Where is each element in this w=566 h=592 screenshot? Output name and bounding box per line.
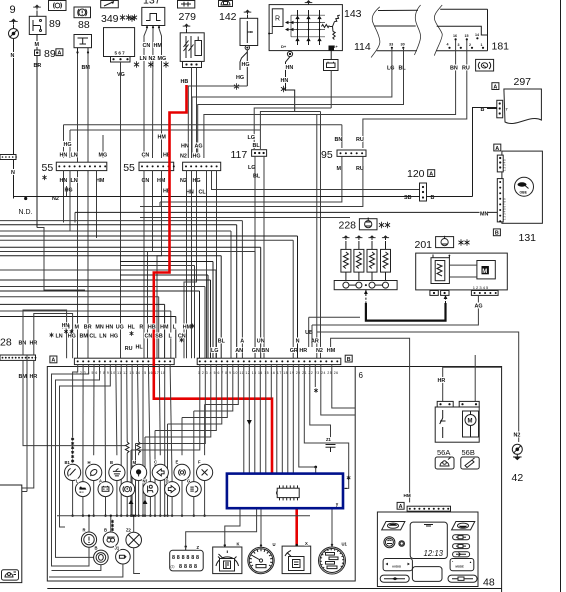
label HM 48 (403, 493, 410, 498)
cap Z1 (326, 437, 332, 442)
label LN (139, 55, 147, 61)
lamp O row4 (94, 550, 109, 565)
svg-text:HN: HN (62, 323, 70, 329)
label HB top (180, 78, 188, 84)
icon box 88 (74, 7, 91, 18)
wire pb12 (259, 365, 261, 473)
strip 48 (407, 506, 450, 511)
svg-text:D: D (166, 479, 169, 484)
label CL g (198, 188, 206, 194)
svg-text:HN: HN (186, 190, 194, 196)
wire pa18 D (170, 365, 172, 482)
strip 55 left (56, 162, 107, 170)
label HG b (64, 186, 72, 192)
box 89 (29, 16, 46, 34)
svg-text:BL: BL (218, 339, 226, 345)
gauge U (248, 547, 274, 573)
svg-text:HG: HG (236, 75, 244, 81)
B box 131 (493, 229, 500, 236)
ground 142 (247, 12, 249, 15)
box cluster 6 (47, 367, 355, 582)
svg-text:HM: HM (327, 348, 336, 354)
btn 48 bottom left (380, 575, 409, 582)
svg-text:7: 7 (506, 108, 508, 112)
svg-text:▲: ▲ (469, 560, 472, 564)
left panel border bottom-right (355, 367, 501, 592)
svg-text:HB: HB (181, 79, 189, 85)
ast 55 left (42, 175, 46, 180)
wire HR 28 down (22, 360, 34, 488)
svg-text:B: B (95, 546, 98, 551)
svg-text:28: 28 (0, 337, 12, 349)
resistors 228 (341, 249, 351, 272)
terminal D+ (287, 51, 292, 56)
ground 279 (186, 26, 188, 29)
wire mesh h3 (0, 230, 231, 232)
wire BM 28 down (23, 360, 125, 445)
wire 88 pin1 down (77, 54, 79, 358)
wire pb25 (332, 365, 355, 408)
label HM d (157, 177, 165, 183)
icon box battery (324, 60, 339, 71)
svg-text:N2: N2 (180, 154, 187, 160)
label BM (81, 64, 89, 70)
label RU rowA (124, 345, 132, 351)
labels strip A row1 (62, 323, 70, 329)
wire odometer feed (186, 510, 257, 547)
svg-text:16: 16 (453, 34, 457, 38)
svg-text:N2: N2 (514, 433, 521, 439)
svg-text:N2: N2 (149, 56, 156, 62)
label BN 95 (334, 136, 342, 142)
wire U feed (260, 510, 262, 546)
btn 48 wiper R (452, 522, 475, 530)
label LG 114 (387, 64, 395, 70)
label RU 181 (462, 64, 470, 70)
wire pa17 bus (164, 365, 166, 516)
wire pb23 (321, 365, 355, 415)
label N2 f (180, 177, 188, 183)
svg-text:N.D.: N.D. (19, 209, 33, 216)
lamps row2 (75, 482, 90, 497)
svg-text:BN: BN (261, 348, 269, 354)
pins 279 (183, 62, 202, 68)
display 48 (410, 522, 447, 558)
svg-text:CN: CN (145, 334, 153, 340)
wires 117 down (254, 156, 256, 358)
svg-text:LG: LG (387, 66, 395, 72)
coil 201 (431, 258, 449, 284)
wire red main (154, 85, 272, 473)
svg-text:N1: N1 (143, 479, 149, 484)
svg-text:MG: MG (158, 56, 167, 62)
svg-text:N: N (11, 170, 15, 176)
svg-text:LG: LG (248, 165, 256, 171)
A box 297 (492, 83, 499, 90)
svg-text:AG: AG (195, 144, 203, 150)
strip 117 (252, 150, 267, 157)
svg-text:HL: HL (128, 325, 136, 331)
wire pb19 dot (299, 365, 316, 467)
svg-text:AUDIO: AUDIO (392, 565, 402, 569)
label HN b (59, 177, 67, 183)
label HR 56 (437, 377, 445, 383)
svg-text:120: 120 (407, 168, 425, 180)
label BL 114 (398, 64, 406, 70)
labels strip A row2 (55, 332, 63, 338)
svg-text:A: A (240, 339, 244, 345)
label HL rowA (135, 343, 143, 349)
svg-text:J1: J1 (115, 546, 120, 551)
svg-text:131: 131 (519, 232, 537, 244)
svg-text:CL: CL (199, 190, 207, 196)
svg-text:HM: HM (160, 325, 169, 331)
lamp J1 row4 (116, 549, 131, 564)
connector wall N (0, 155, 16, 160)
svg-text:A: A (399, 504, 403, 510)
wire pb2 nest (136, 365, 206, 444)
svg-text:HG: HG (242, 62, 250, 68)
resistor cluster 1 (125, 442, 129, 453)
ast 228 (379, 222, 384, 228)
icon box 279 (178, 1, 195, 9)
svg-text:B1: B1 (65, 460, 71, 465)
ast HN (281, 86, 286, 92)
wire 89 M (36, 11, 38, 17)
lamp labels row1 (64, 460, 70, 465)
labels strip B row1 (217, 337, 225, 343)
label HM c (157, 133, 165, 139)
B box stripB (345, 355, 352, 362)
svg-text:5 6 7: 5 6 7 (115, 51, 126, 56)
svg-text:142: 142 (219, 11, 237, 23)
icon box 201 (436, 237, 454, 248)
wire mesh h12 (0, 290, 200, 292)
svg-text:HM: HM (154, 43, 163, 49)
wires 55L down (63, 171, 65, 223)
label N2 42 (513, 431, 521, 437)
wire pb21 Z1 (310, 365, 331, 441)
svg-text:X: X (305, 541, 308, 546)
svg-text:89: 89 (44, 48, 56, 60)
wire bus y125 (64, 124, 342, 126)
diode cluster 1 (129, 500, 134, 505)
label LN a (70, 151, 78, 157)
lamp B row3 (103, 532, 118, 547)
wire pa3 nest (52, 365, 90, 566)
svg-text:SB: SB (404, 195, 412, 201)
icon wash 1 (435, 457, 454, 469)
btn 48 small (399, 541, 405, 547)
box 297 (504, 89, 542, 124)
label HG e (192, 152, 200, 158)
svg-text:CN: CN (142, 153, 150, 159)
wire 9 to sensor (13, 25, 15, 29)
wire VG down (120, 62, 122, 358)
btn 48 oval1 (453, 535, 470, 540)
svg-text:BM: BM (82, 65, 91, 71)
label HN e (181, 142, 189, 148)
svg-text:LN: LN (71, 153, 78, 159)
svg-text:HN: HN (286, 65, 294, 71)
wire pb22 stub (314, 365, 316, 387)
label HM (153, 42, 161, 48)
link 201 (449, 264, 477, 266)
svg-text:M: M (133, 460, 137, 465)
svg-text:2: 2 (469, 43, 471, 47)
wire HR 56 (443, 367, 502, 401)
wire pb5 nest (168, 365, 222, 424)
gauge X (282, 546, 311, 574)
svg-text:HM: HM (404, 493, 411, 498)
wire mesh h14 (120, 265, 195, 267)
svg-text:LN: LN (71, 178, 78, 184)
terminal 142 (245, 45, 249, 49)
wire pa12 M (138, 365, 139, 442)
svg-text:143: 143 (344, 8, 362, 20)
wire pb11 (254, 365, 256, 473)
svg-text:BL: BL (399, 66, 407, 72)
label MG (157, 55, 165, 61)
wire pb13 (265, 365, 267, 473)
wire mesh h5 (0, 239, 293, 241)
svg-text:B: B (104, 528, 107, 533)
svg-text:9: 9 (10, 4, 16, 16)
label RU 95b (356, 165, 364, 171)
strip 95 (337, 150, 366, 156)
wire pa11 bus2 (131, 365, 133, 516)
pins 297 (497, 100, 503, 118)
btn 48 audio (383, 559, 412, 571)
label N2 on line (52, 195, 60, 201)
strip A (74, 358, 174, 364)
wire HM 48 line (331, 338, 410, 502)
wire pb1 nest (131, 365, 200, 450)
label HG f (192, 177, 200, 183)
pins 349 (111, 57, 131, 63)
label MN (480, 210, 488, 216)
strip 55 right (139, 162, 174, 170)
svg-text:HG: HG (68, 334, 76, 340)
sensor 42 (512, 444, 522, 454)
node N.D. junction (24, 197, 27, 200)
svg-text:BM: BM (80, 334, 89, 340)
svg-text:1 2 3 4 5 6 7 8 9 10 11 12 13: 1 2 3 4 5 6 7 8 9 10 11 12 13 14 15 16 1… (198, 371, 338, 375)
svg-text:42: 42 (512, 472, 524, 484)
btn 48 oval2 (453, 544, 470, 549)
wire mesh h4 (0, 235, 298, 237)
btn 48 bottom right (448, 575, 477, 582)
wire 137 p2 (152, 29, 155, 159)
label N2 (148, 55, 156, 61)
stator winding (322, 25, 330, 28)
strip 55 third (183, 162, 221, 170)
gauge U1 (319, 547, 346, 574)
wire N down (13, 39, 15, 199)
svg-text:CL: CL (89, 334, 97, 340)
label HN a (59, 151, 67, 157)
wire pa10 BRK (126, 365, 129, 442)
svg-text:HG: HG (65, 188, 73, 194)
lamp Z2 row3 (126, 532, 142, 548)
svg-text:BN: BN (19, 341, 27, 347)
wire pa14 N1 (148, 365, 150, 482)
svg-text:K: K (237, 542, 240, 547)
svg-text:AN: AN (235, 348, 243, 354)
icon box headlamp (49, 1, 67, 11)
wire HR 28 up (34, 314, 73, 359)
wire mesh h8 (0, 255, 221, 257)
diode cluster 2 (143, 500, 148, 505)
svg-text:HM: HM (96, 178, 105, 184)
svg-text:1 2 3 4 5 6 7 8 9 10 11 12 13: 1 2 3 4 5 6 7 8 9 10 11 12 13 14 15 16 1… (76, 371, 165, 375)
wire pb18 (292, 365, 294, 473)
label SB (404, 194, 412, 200)
svg-text:M: M (468, 419, 473, 425)
svg-text:Z: Z (197, 545, 200, 550)
svg-text:RU: RU (125, 346, 133, 352)
svg-text:A: A (57, 51, 61, 57)
label LG 117a (247, 134, 255, 140)
svg-text:15: 15 (465, 34, 469, 38)
strip 131 A (497, 155, 503, 172)
svg-text:CN: CN (143, 43, 151, 49)
wire pb17 (287, 365, 289, 473)
wire 181 RU (363, 40, 467, 148)
svg-text:1: 1 (481, 43, 483, 47)
ground 89 (36, 7, 38, 10)
svg-text:1 2 3 4 5: 1 2 3 4 5 (503, 159, 507, 171)
wire vert MG55 (102, 135, 104, 158)
svg-text:BL: BL (253, 174, 261, 180)
svg-text:LN: LN (56, 334, 63, 340)
wire B 297 (487, 108, 497, 110)
label HN 143a (285, 64, 293, 70)
svg-text:N: N (296, 339, 300, 345)
wire 181 BN (204, 40, 456, 158)
wire batt (330, 51, 332, 60)
strip 131 B (497, 179, 503, 222)
right page border (560, 0, 562, 592)
wire pa4 H (93, 365, 95, 456)
svg-text:HM: HM (183, 325, 192, 331)
box 279 (180, 33, 204, 62)
wire bus y130 (70, 129, 260, 131)
wire y317 stub (309, 316, 360, 318)
labels strip B row2 (211, 347, 219, 353)
svg-text:N: N (11, 53, 15, 59)
wires strip3 down (186, 171, 188, 359)
svg-text:137: 137 (143, 0, 161, 7)
svg-text:1 2 3 4 5: 1 2 3 4 5 (473, 285, 489, 290)
svg-text:L: L (76, 479, 79, 484)
svg-text:D+: D+ (281, 44, 287, 49)
svg-text:55: 55 (123, 162, 135, 174)
box bottom-left unit (0, 485, 22, 583)
rectifier diodes (297, 10, 299, 45)
wire pa2 L (82, 365, 84, 482)
label CN d (141, 177, 149, 183)
wire pa6 A (104, 365, 107, 482)
label M (34, 41, 38, 47)
wire 95 RU down (140, 156, 363, 206)
strip 28 (0, 355, 36, 360)
svg-text:BN: BN (335, 137, 343, 143)
svg-text:MN: MN (95, 325, 103, 331)
wire mesh h13 (120, 261, 213, 263)
label BL 117b (253, 172, 261, 178)
label HB d (163, 187, 171, 193)
label HB c (163, 151, 171, 157)
svg-text:SB: SB (155, 334, 163, 340)
bottom frame line (47, 588, 501, 590)
label HM b (96, 177, 104, 183)
svg-text:56A: 56A (437, 448, 450, 457)
svg-text:117: 117 (231, 149, 248, 161)
ast 137 left (129, 15, 134, 21)
label AG (474, 302, 482, 308)
torn sheet 181 (434, 5, 442, 56)
svg-text:349: 349 (101, 13, 119, 25)
svg-text:UG: UG (116, 325, 124, 331)
label N 2 (11, 169, 15, 175)
svg-text:B: B (495, 231, 499, 237)
label K (236, 542, 240, 547)
label U1 (341, 542, 347, 547)
svg-text:RU: RU (462, 66, 470, 72)
ground 42 (516, 455, 518, 458)
svg-text:N2: N2 (316, 348, 323, 354)
svg-text:BN: BN (450, 66, 458, 72)
ast 349 (134, 61, 139, 67)
wire pa7 nest (60, 365, 111, 527)
icon wash 2 (461, 457, 479, 469)
svg-text:4: 4 (447, 43, 449, 47)
wire pa13 bus (142, 365, 144, 516)
regulator R box (272, 9, 283, 27)
label 349 *** (120, 14, 125, 20)
svg-text:G: G (187, 479, 190, 484)
svg-text:HG: HG (110, 334, 118, 340)
wire pb6 nest (182, 365, 227, 418)
label M 95 (336, 165, 340, 171)
svg-text:55: 55 (42, 162, 54, 174)
label LG 117b (248, 164, 256, 170)
icon box bottom-left (2, 570, 19, 580)
strip B (197, 358, 341, 364)
wire bus y111 (260, 112, 320, 150)
svg-text:12:13: 12:13 (424, 549, 444, 558)
svg-text:3: 3 (458, 43, 460, 47)
wire BR down (36, 56, 38, 228)
wires 55R down (143, 171, 145, 359)
svg-text:GN: GN (252, 348, 260, 354)
svg-text:H: H (88, 460, 91, 465)
svg-text:M: M (337, 166, 342, 172)
svg-text:(1): (1) (171, 565, 175, 569)
svg-text:Z2: Z2 (126, 528, 132, 533)
btn 48 round (384, 537, 395, 548)
wire mesh y212 spur (74, 212, 76, 222)
ast 201 (458, 239, 463, 245)
wire mesh h17 (0, 303, 165, 305)
label N (10, 52, 14, 58)
wire 88 pin2 down (87, 54, 89, 358)
svg-text:HG: HG (64, 142, 72, 148)
chain ast B1 (71, 437, 74, 441)
gauge K (213, 547, 242, 574)
node 89A (35, 50, 41, 56)
